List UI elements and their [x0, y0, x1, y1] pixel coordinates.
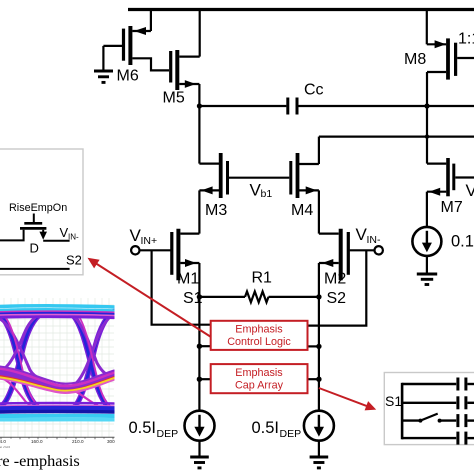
svg-text:1:1: 1:1 [458, 31, 474, 48]
wire (VIN- to Emphasis Control Logic) [308, 250, 367, 325]
capacitor (branch 1) [456, 378, 459, 391]
wire (R1 to S2) [269, 296, 319, 298]
svg-text:160.0: 160.0 [31, 439, 43, 444]
middle emphasis band [0, 373, 114, 391]
wire (cap array bus) [401, 383, 404, 440]
node Vb1 label [250, 181, 273, 201]
wire (to box right) [308, 345, 319, 347]
svg-text:S2: S2 [327, 290, 347, 307]
wire (M7/M8 drain vertical) [426, 106, 428, 164]
wire (to cap array box left) [199, 378, 210, 380]
node S2 [316, 290, 346, 307]
VDD rail [128, 8, 474, 11]
svg-text:IN+: IN+ [141, 235, 158, 247]
svg-text:M5: M5 [163, 90, 185, 107]
svg-text:re -emphasis: re -emphasis [0, 451, 80, 470]
node (right, cap array tap) [316, 377, 321, 382]
capacitor (branch 2) [456, 396, 459, 409]
resistor R1 [245, 270, 272, 303]
svg-text:DEP: DEP [157, 428, 179, 440]
wire (inset source lead w/ arrow) [42, 230, 44, 234]
svg-text:M7: M7 [441, 199, 463, 216]
svg-text:S1: S1 [385, 393, 402, 409]
svg-text:Emphasis: Emphasis [235, 324, 283, 336]
ground (M6 gate) [94, 46, 113, 83]
svg-text:Control Logic: Control Logic [227, 336, 291, 348]
svg-text:0.1I: 0.1I [451, 233, 474, 251]
capacitor (branch 4) [456, 432, 459, 445]
branch 4 wire [402, 437, 456, 439]
transistor M2 [319, 229, 383, 297]
node (left, control logic tap) [197, 344, 202, 349]
grid [0, 298, 114, 437]
red callout arrow (to cap array inset) [319, 388, 376, 410]
wire (to box left) [199, 345, 210, 347]
wire (Cc net, left) [199, 105, 286, 107]
node (Cc / M8 drain junction) [424, 103, 429, 108]
wire (output net from M4 drain) [319, 136, 474, 138]
svg-text:IN-: IN- [68, 233, 79, 242]
transistor M6 [103, 10, 169, 85]
svg-text:M1: M1 [177, 271, 199, 288]
transistor M4 [291, 137, 319, 234]
transistor M3 [199, 106, 227, 234]
ground (right tail) [310, 441, 329, 468]
wire (inset drain lead) [0, 230, 24, 241]
svg-text:DEP: DEP [280, 428, 302, 440]
transistor M5 [163, 10, 200, 107]
block Emphasis Cap Array [211, 364, 308, 393]
current source 0.5 IDEP (left tail) [129, 411, 215, 441]
block Emphasis Control Logic [211, 321, 308, 350]
capacitor Cc [288, 82, 324, 115]
ground (0.1 IDEP) [417, 256, 437, 285]
svg-text:Emphasis: Emphasis [235, 367, 283, 379]
node (M5 drain / Cc tap) [197, 103, 202, 108]
transistor M8 [404, 10, 474, 107]
wire (inset S2 rail) [0, 268, 70, 270]
node (right, control logic tap) [316, 344, 321, 349]
inset: emphasis cap array detail [384, 373, 474, 445]
svg-text:M6: M6 [117, 68, 139, 85]
svg-text:M2: M2 [324, 271, 346, 288]
svg-text:Cap Array: Cap Array [235, 379, 284, 391]
eye traces [0, 306, 114, 420]
node S1 [183, 290, 203, 307]
svg-text:0.5I: 0.5I [129, 419, 157, 437]
wire (Cc net, right) [298, 105, 474, 107]
eye diagram panel [0, 297, 115, 450]
bottom band [0, 402, 114, 405]
axis [0, 436, 115, 438]
svg-text:RiseEmpOn: RiseEmpOn [9, 202, 67, 214]
wire (Vb1 gate bias) [229, 177, 289, 179]
svg-text:M4: M4 [291, 202, 313, 219]
red callout arrow (to RiseEmpOn inset) [88, 258, 212, 337]
wire (S1 to R1) [199, 296, 245, 298]
wire (S2 down to tail source) [318, 297, 320, 411]
svg-text:Cc: Cc [304, 82, 324, 99]
svg-text:0.5I: 0.5I [252, 419, 280, 437]
capacitor (branch 3) [456, 414, 459, 427]
wire (VIN+ to Emphasis Control Logic) [152, 250, 211, 324]
ground (left tail) [190, 441, 209, 468]
transitions left [0, 316, 40, 409]
current source 0.5 IDEP (right tail) [252, 411, 334, 441]
svg-text:IN-: IN- [367, 234, 382, 246]
inset: RiseEmpOn switch detail [0, 149, 83, 275]
node VIN+ label [130, 226, 158, 247]
transistor M7 [427, 158, 474, 227]
svg-text:M3: M3 [205, 202, 227, 219]
transitions right [70, 313, 112, 410]
svg-text:S2: S2 [66, 253, 82, 268]
node (left, cap array tap) [197, 377, 202, 382]
svg-text:D: D [30, 241, 39, 256]
top band [0, 306, 114, 307]
current source 0.1 IDEP [412, 227, 474, 256]
svg-text:R1: R1 [252, 270, 273, 287]
wire (S1 down to tail source) [198, 297, 200, 411]
svg-text:300: 300 [107, 439, 115, 444]
branch 3 wire with switch [402, 419, 420, 421]
svg-text:44.0: 44.0 [0, 439, 6, 444]
svg-text:210.0: 210.0 [72, 439, 84, 444]
node VIN- label [356, 225, 382, 246]
branch 2 wire [402, 402, 456, 404]
svg-text:M8: M8 [404, 51, 426, 68]
svg-text:b1: b1 [261, 188, 273, 200]
branch 1 wire [402, 383, 456, 385]
switch transistor (inset) [33, 214, 35, 223]
wire (to cap array box right) [308, 378, 319, 380]
svg-text:V: V [466, 181, 474, 200]
node (output / M7 drain junction) [425, 134, 429, 138]
transistor M1 [131, 229, 199, 297]
